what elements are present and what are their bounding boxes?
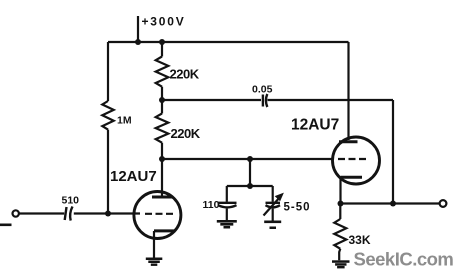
svg-text:33K: 33K [349,233,371,247]
wire V1 grid dashes [145,213,176,215]
resistor R4 33K [334,219,346,249]
svg-text:12AU7: 12AU7 [291,117,339,134]
wire +300V stub [137,16,139,42]
tube V2 plate bar [339,140,358,143]
wire V2 grid dashes [338,158,368,160]
tube V2 cathode bar [341,176,363,179]
wire V2 cathode lead [339,178,341,204]
resistor R3 220K lower [156,114,169,143]
wire R4 top lead [339,204,341,220]
wire V1 plate node to V2 grid [162,158,333,160]
capacitor C2 0.05 [263,94,267,107]
junction dot cap branch bar [247,183,253,189]
wire right feedback vertical [392,100,394,204]
wire C4 bottom lead [272,209,274,221]
wire V1 plate lead [161,159,163,196]
wire C3 bottom lead [226,209,228,220]
capacitor C1 510 [65,207,73,221]
wire coupling line right of C2 [268,99,394,101]
ground below C4 [0,221,281,230]
tube V1 plate bar [152,196,172,199]
svg-text:110: 110 [203,199,220,211]
resistor R2 220K upper [156,57,169,87]
wire coupling line left of C2 [162,99,261,101]
svg-text:0.05: 0.05 [252,84,273,96]
C4 arrowhead [275,193,284,202]
wire C3 top lead [226,186,228,202]
svg-text:1M: 1M [117,115,132,127]
junction dot feedback-output [390,201,396,207]
capacitor C3 110 [218,203,237,208]
svg-text:510: 510 [62,195,80,207]
wire capacitor branch bar [227,185,273,187]
wire between 220K resistors [161,87,163,114]
junction dot 220K mid [159,97,165,103]
wire 220K chain top lead [161,42,163,57]
svg-text:220K: 220K [170,67,200,82]
capacitor C4 5-50 variable [266,203,281,208]
tube V1 cathode bar [154,229,176,232]
ground below V1 cathode [146,258,163,266]
ground below C3 [217,220,237,229]
wire C4 top lead [272,186,274,202]
svg-text:12AU7: 12AU7 [110,168,157,185]
junction dot rail-220K [159,39,165,45]
junction dot V2 cathode node [338,201,344,207]
svg-text:220K: 220K [171,126,201,141]
ground below R4 [332,260,350,268]
wire top B+ rail [108,41,349,43]
output terminal [440,200,447,207]
wire left vertical lower (1M bottom to input node) [107,130,109,214]
junction dot input node [105,211,111,217]
wire C4 arrow shaft [264,197,281,216]
wire V2 plate lead from rail [347,42,349,140]
tube V2 12AU7 envelope [333,137,380,184]
wire left vertical upper (rail to 1M top) [107,42,109,101]
wire input lead [19,212,64,214]
junction dot V1 plate node [159,156,165,162]
wire V1 cathode lead to ground [153,231,155,258]
tube V1 12AU7 envelope [134,192,181,239]
junction dot cap branch top [247,156,253,162]
wire R4 bottom lead [339,249,340,260]
wire input node to V1 grid [74,212,140,214]
wire 220K bottom lead [161,143,163,159]
input terminal [13,210,19,216]
junction dot rail-300V [135,39,141,45]
svg-text:+300V: +300V [142,15,186,29]
resistor R1 1M [102,101,113,130]
wire capacitor branch drop [249,159,251,186]
svg-text:SeekIC.com: SeekIC.com [354,249,454,270]
wire output line [341,202,440,204]
svg-text:5-50: 5-50 [284,202,311,214]
